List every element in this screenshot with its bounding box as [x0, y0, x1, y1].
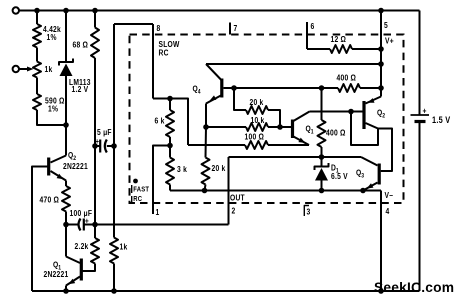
svg-text:2.2k: 2.2k: [75, 241, 89, 251]
node OUT-D1 junction: [319, 154, 325, 160]
node 5uF right junction: [111, 143, 117, 149]
transistor Q3 collector diagonal: [361, 157, 378, 166]
resistor 590 ohm: [33, 94, 41, 110]
resistor 6k: [166, 110, 174, 137]
wire 12ohm left lead: [307, 48, 330, 50]
wire LM113 anode lead: [65, 76, 67, 125]
svg-text:68 Ω: 68 Ω: [73, 40, 89, 50]
node rail-pin5 junction: [378, 8, 384, 14]
battery short plate: [415, 120, 426, 123]
label RC fast tick: [132, 196, 135, 203]
wire 1k to bottom rail: [113, 264, 115, 292]
node 20k-rail junction: [202, 188, 208, 194]
label FAST tick: [131, 185, 133, 193]
wire Q4 base lead: [224, 87, 235, 89]
node pin8 net junction: [167, 96, 173, 102]
wire OUT vertical: [228, 157, 230, 225]
capacitor 100uF straight plate: [83, 219, 85, 231]
wire bottom rail: [32, 290, 420, 292]
svg-text:+: +: [95, 136, 99, 146]
wire 6k bottom lead: [169, 137, 171, 146]
transistor Q3 emitter diagonal: [363, 183, 378, 191]
node collector rail junction: [378, 61, 384, 67]
wire 2.2k top lead: [94, 225, 96, 239]
diode D1 triangle: [315, 168, 328, 181]
wire OUT bottom rail: [95, 224, 229, 226]
wire Q2 collector riser: [65, 125, 67, 156]
node rail-4.42k junction: [34, 8, 40, 14]
resistor 68 ohm: [91, 28, 99, 59]
resistor 470 ohm: [62, 186, 70, 212]
wire 100ohm row left lead: [188, 144, 245, 146]
svg-text:V+: V+: [385, 36, 394, 46]
wire wiper arrow shaft: [19, 68, 29, 70]
wire 400h right lead: [360, 87, 381, 89]
node pin4-bottom rail junction: [378, 288, 384, 294]
wire slow-RC link horizontal: [114, 23, 153, 25]
wire 6k top lead: [169, 99, 171, 111]
node 590-LM113 junction: [63, 122, 69, 128]
wire OUT to Q3 collector: [322, 156, 362, 158]
wire Q1col-Q2base: [310, 111, 363, 113]
transistor Q2 inner base bar: [362, 101, 365, 129]
wire D1 cathode lead: [321, 157, 323, 167]
node Q4base junction: [231, 85, 237, 91]
wire fast-RC pin1 lead: [153, 146, 170, 215]
wire 20k lower top lead: [205, 127, 208, 158]
node 5uF left junction: [92, 143, 98, 149]
wire Q2 inner base lead: [351, 111, 362, 113]
transistor Q2 inner emitter diagonal: [366, 97, 382, 104]
node 1k-bottom junction: [111, 288, 117, 294]
wire 590 bottom lead: [37, 110, 66, 125]
resistor 4.42k: [33, 24, 41, 48]
svg-text:100 μF: 100 μF: [70, 208, 93, 218]
wire Q2 collector to Q3 base: [378, 129, 392, 172]
terminal input wiper: [13, 66, 19, 72]
wire 100uF left lead: [66, 224, 78, 226]
wire 10k to Q1 base: [280, 126, 291, 128]
transistor Q1 emitter arrow: [68, 279, 75, 285]
resistor 3k: [166, 158, 174, 185]
wire D1 anode lead: [321, 181, 323, 191]
wire colD riser: [113, 24, 115, 146]
transistor Q4 collector diagonal: [206, 64, 222, 81]
wire 100uF right lead: [84, 224, 95, 226]
svg-text:400 Ω: 400 Ω: [326, 128, 346, 138]
wire 470 bottom lead: [65, 212, 67, 225]
pin 3 tick: [304, 206, 309, 217]
wire colD 5uF to 1k: [113, 146, 115, 238]
wiper arrowhead: [27, 67, 34, 72]
wire pin8 net to colF: [153, 99, 188, 146]
wire 12ohm right lead: [352, 48, 381, 50]
wire 5uF left lead: [95, 145, 100, 147]
svg-text:470 Ω: 470 Ω: [40, 195, 60, 205]
node Q4em-10k junction: [203, 124, 209, 130]
svg-text:V–: V–: [385, 190, 394, 200]
svg-text:6.5 V: 6.5 V: [331, 171, 348, 181]
node 400ohm vert top junction: [319, 85, 325, 91]
transistor Q2 inner emitter arrow: [368, 98, 375, 103]
node V+ 12ohm junction: [378, 46, 384, 52]
svg-text:8: 8: [157, 23, 161, 33]
wire pin4 V-minus drop: [380, 191, 382, 292]
transistor Q4 emitter diagonal: [206, 95, 222, 104]
node Q1em-bottom junction: [63, 288, 69, 294]
transistor Q4 base bar: [220, 79, 223, 98]
capacitor 5uF curved plate: [105, 140, 107, 153]
terminal input top: [13, 7, 19, 13]
wire battery negative drop: [419, 122, 421, 292]
node Q3 emitter-rail junction: [360, 188, 366, 194]
node rail-LM113 junction: [63, 8, 69, 14]
wire internal V-minus rail: [170, 190, 381, 192]
wire Q2 base lead: [32, 167, 48, 292]
wire 5uF right lead: [107, 145, 114, 147]
node rail-68ohm junction: [92, 8, 98, 14]
svg-text:5: 5: [384, 20, 388, 30]
wire colC 5uF to 100uF: [94, 146, 96, 225]
transistor Q2 emitter arrow: [57, 174, 64, 180]
wire OUT top rail: [229, 156, 322, 158]
wire pin5 V+ vertical: [380, 11, 382, 89]
diode LM113 triangle: [60, 64, 73, 77]
diode D1 zener bar: [315, 163, 329, 170]
resistor 100 ohm: [245, 141, 268, 149]
svg-text:6 k: 6 k: [155, 116, 165, 126]
IC boundary dashed box: [130, 35, 404, 204]
resistor 1k bottom: [110, 238, 118, 264]
wire Q1 emitter lead: [65, 286, 67, 292]
node 100uF-2.2k junction: [92, 222, 98, 228]
svg-text:7: 7: [234, 23, 238, 33]
wire Q2 emitter to 470: [65, 181, 67, 187]
wire Q1 base lead: [83, 264, 96, 272]
transistor Q1 inner collector diagonal: [293, 112, 310, 122]
transistor Q1 base bar: [80, 259, 83, 281]
resistor 1k trim: [33, 62, 41, 78]
wire 68ohm to 5uF: [94, 58, 96, 146]
transistor Q1 emitter diagonal: [66, 277, 80, 286]
svg-text:OUT: OUT: [230, 193, 245, 203]
transistor Q1 inner emitter arrow: [298, 138, 305, 143]
capacitor 5uF straight plate: [99, 140, 101, 153]
svg-text:1k: 1k: [120, 242, 128, 252]
battery long plate: [411, 114, 430, 116]
wire 3k bottom lead: [169, 185, 171, 191]
svg-text:5 μF: 5 μF: [97, 127, 112, 137]
wire 20k lower bottom lead: [205, 185, 206, 191]
resistor 20k lower: [202, 158, 210, 185]
svg-text:4: 4: [386, 206, 390, 216]
transistor Q2 base bar: [47, 158, 50, 176]
transistor Q2 emitter diagonal: [51, 171, 67, 181]
resistor 10k: [246, 123, 268, 131]
svg-text:12 Ω: 12 Ω: [331, 34, 347, 44]
node Q2 base junction: [348, 109, 354, 115]
transistor Q4 emitter arrow: [210, 95, 217, 100]
wire row88: [234, 87, 322, 89]
svg-text:+: +: [423, 106, 427, 116]
node D1-rail junction: [319, 188, 325, 194]
node 470-100uF junction: [63, 222, 69, 228]
wire Q2 collector-base loop: [351, 112, 378, 146]
wire Q4 collector rail to V+: [206, 63, 381, 65]
pin 7 stub: [229, 23, 231, 35]
svg-text:2: 2: [232, 206, 236, 216]
wire pin 8 drop: [152, 24, 154, 99]
svg-text:RC: RC: [159, 48, 169, 58]
node 6k-3k junction: [167, 143, 173, 149]
wire Q4 emitter drop: [205, 104, 207, 128]
node 10k-20k junction: [277, 124, 283, 130]
svg-text:100 Ω: 100 Ω: [245, 132, 265, 142]
transistor Q2 inner collector diagonal: [366, 123, 379, 129]
resistor 2.2k: [91, 238, 99, 264]
svg-text:10 k: 10 k: [251, 115, 265, 125]
wire 400v top lead: [321, 88, 323, 120]
transistor Q2 collector diagonal: [51, 156, 67, 163]
svg-text:FAST: FAST: [133, 186, 150, 194]
transistor Q3 base bar: [378, 164, 381, 185]
svg-text:1%: 1%: [48, 104, 58, 114]
wire 3k top lead: [169, 146, 171, 158]
capacitor 100uF curved plate: [79, 219, 81, 231]
svg-text:6: 6: [311, 21, 315, 31]
wire 10k row right lead: [268, 126, 280, 128]
svg-text:20 k: 20 k: [212, 163, 226, 173]
wire 68ohm top lead: [94, 11, 96, 28]
resistor 400 ohm vertical: [318, 120, 326, 147]
svg-text:20 k: 20 k: [250, 97, 264, 107]
svg-text:1.2 V: 1.2 V: [72, 84, 89, 94]
wire 4.42k top lead: [36, 11, 38, 25]
svg-text:1k: 1k: [45, 64, 53, 74]
wire 100ohm row right lead: [268, 144, 309, 146]
node V+ 400h junction: [378, 85, 384, 91]
pin FAST RC marker dot: [133, 179, 138, 184]
svg-text:1.5 V: 1.5 V: [432, 114, 451, 125]
transistor Q1 collector diagonal: [66, 257, 80, 264]
transistor Q1 inner base bar: [291, 120, 294, 139]
diode LM113 zener bar: [59, 59, 73, 66]
wire Q1 collector riser: [65, 225, 67, 257]
wire Q2 inner emitter lead: [380, 88, 382, 97]
wire battery positive drop: [419, 11, 421, 116]
wire 10k row left lead: [206, 126, 246, 128]
transistor Q3 emitter arrow: [367, 183, 374, 188]
svg-text:RC: RC: [133, 195, 142, 203]
svg-text:3: 3: [307, 207, 311, 217]
svg-text:3 k: 3 k: [177, 164, 187, 174]
svg-text:2N2221: 2N2221: [63, 161, 88, 171]
wire 20k row right lead: [268, 110, 280, 127]
wire row88 to 400h: [322, 87, 339, 89]
pin 6 stub: [306, 22, 308, 49]
svg-text:400 Ω: 400 Ω: [337, 73, 357, 83]
wire 4.42k to 1k: [36, 48, 38, 62]
wire 20k row left lead: [234, 88, 246, 110]
transistor Q1 inner emitter diagonal: [293, 136, 310, 145]
svg-text:1%: 1%: [47, 32, 57, 42]
wire 1k to 590: [36, 78, 38, 95]
svg-text:2N2221: 2N2221: [44, 269, 69, 279]
svg-text:SeekIC.com: SeekIC.com: [374, 280, 454, 295]
wire 400v bottom lead: [321, 147, 323, 157]
resistor 400 ohm horizontal: [338, 84, 360, 92]
svg-text:1: 1: [156, 207, 160, 217]
resistor 12 ohm: [330, 45, 352, 53]
wire LM113 cathode lead: [65, 11, 67, 62]
resistor 20k upper: [246, 106, 268, 114]
wire top rail: [19, 10, 419, 12]
